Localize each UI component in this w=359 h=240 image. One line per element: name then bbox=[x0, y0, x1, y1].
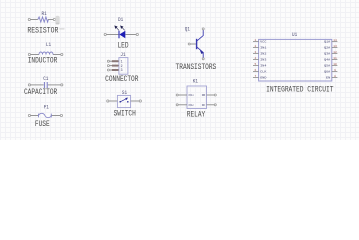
svg-text:7: 7 bbox=[254, 75, 256, 78]
svg-text:J1: J1 bbox=[120, 52, 125, 58]
svg-text:RELAY: RELAY bbox=[187, 110, 206, 119]
svg-text:Q6A: Q6A bbox=[324, 71, 330, 74]
svg-text:TRANSISTORS: TRANSISTORS bbox=[176, 63, 217, 72]
svg-text:8: 8 bbox=[334, 75, 336, 78]
svg-text:CONNECTOR: CONNECTOR bbox=[105, 75, 138, 84]
svg-text:K1: K1 bbox=[193, 78, 198, 84]
svg-text:SWITCH: SWITCH bbox=[114, 109, 136, 118]
svg-text:C1: C1 bbox=[43, 76, 48, 82]
svg-text:11: 11 bbox=[333, 57, 337, 60]
svg-text:LED: LED bbox=[117, 42, 128, 51]
svg-text:COIL2: COIL2 bbox=[188, 104, 193, 107]
svg-text:3: 3 bbox=[254, 51, 256, 54]
svg-text:Q1: Q1 bbox=[185, 27, 190, 33]
svg-text:Q5A: Q5A bbox=[324, 65, 330, 68]
svg-text:5: 5 bbox=[254, 63, 256, 66]
svg-text:L1: L1 bbox=[46, 42, 51, 48]
svg-text:COIL1: COIL1 bbox=[188, 94, 193, 97]
svg-text:GND: GND bbox=[260, 77, 266, 80]
svg-text:F1: F1 bbox=[44, 104, 49, 110]
svg-text:1: 1 bbox=[121, 59, 123, 63]
svg-text:VCC: VCC bbox=[260, 41, 266, 44]
svg-text:CAPACITOR: CAPACITOR bbox=[24, 88, 57, 97]
svg-text:1: 1 bbox=[254, 39, 256, 42]
svg-text:Q1A: Q1A bbox=[324, 41, 330, 44]
svg-text:INDUCTOR: INDUCTOR bbox=[28, 57, 58, 66]
svg-text:Q3A: Q3A bbox=[324, 53, 330, 56]
svg-text:RESISTOR: RESISTOR bbox=[27, 26, 58, 35]
svg-text:12: 12 bbox=[333, 51, 337, 54]
svg-text:2: 2 bbox=[254, 45, 256, 48]
svg-text:FUSE: FUSE bbox=[35, 120, 50, 129]
svg-text:S1: S1 bbox=[122, 90, 127, 96]
svg-text:IN3: IN3 bbox=[260, 59, 266, 62]
svg-text:Q2A: Q2A bbox=[324, 47, 330, 50]
svg-text:4: 4 bbox=[254, 57, 256, 60]
svg-text:D1: D1 bbox=[118, 17, 123, 23]
svg-text:13: 13 bbox=[333, 45, 337, 48]
svg-text:10: 10 bbox=[333, 63, 337, 66]
svg-text:CLK: CLK bbox=[260, 71, 266, 74]
svg-text:3: 3 bbox=[121, 68, 123, 72]
svg-text:U1: U1 bbox=[292, 32, 297, 38]
svg-text:IN4: IN4 bbox=[260, 65, 266, 68]
svg-text:6: 6 bbox=[254, 69, 256, 72]
svg-text:IN2: IN2 bbox=[260, 53, 266, 56]
svg-text:Q4A: Q4A bbox=[324, 59, 330, 62]
svg-text:NO: NO bbox=[202, 94, 206, 97]
svg-text:R1: R1 bbox=[42, 11, 47, 17]
svg-text:IN1: IN1 bbox=[260, 47, 266, 50]
svg-text:9: 9 bbox=[334, 69, 336, 72]
svg-text:14: 14 bbox=[333, 39, 337, 42]
svg-text:NC: NC bbox=[202, 104, 206, 107]
svg-text:INTEGRATED CIRCUIT: INTEGRATED CIRCUIT bbox=[266, 86, 333, 95]
svg-text:2: 2 bbox=[121, 64, 123, 68]
svg-text:EN: EN bbox=[326, 77, 330, 80]
